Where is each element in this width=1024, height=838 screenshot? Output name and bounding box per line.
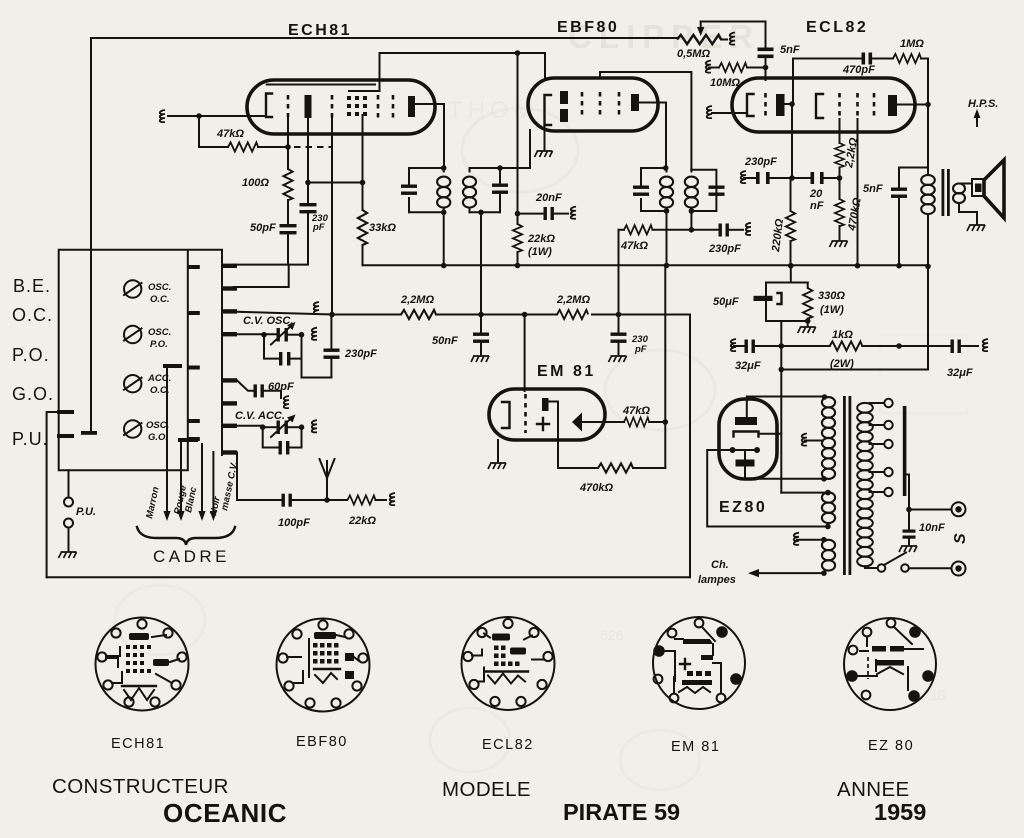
EBF80 grid columns xyxy=(581,92,584,119)
capacitor 50pF xyxy=(280,224,297,234)
svg-text:100pF: 100pF xyxy=(278,517,310,529)
wire top bus xyxy=(91,37,677,39)
svg-text:OSC.: OSC. xyxy=(146,420,169,431)
capacitor 50nF xyxy=(480,315,482,333)
ECL82 pentode grid columns xyxy=(838,93,841,119)
EBF80 cathode ground xyxy=(544,125,546,150)
svg-text:1MΩ: 1MΩ xyxy=(900,38,924,50)
svg-text:18: 18 xyxy=(930,687,946,703)
HT centre tap to chassis xyxy=(802,434,807,446)
svg-text:100Ω: 100Ω xyxy=(242,177,269,189)
EBF80 diode plate 2 xyxy=(560,109,568,122)
svg-text:1959: 1959 xyxy=(874,799,926,825)
resistor 330 Ohm (1W) xyxy=(807,283,809,289)
wire pentode screen to B+ xyxy=(857,119,859,266)
wire pentode anode out xyxy=(897,104,928,106)
svg-text:230pF: 230pF xyxy=(744,156,777,168)
svg-text:ANNEE: ANNEE xyxy=(837,778,910,801)
coil IFT3 primary xyxy=(660,177,673,208)
coil HT secondary winding xyxy=(822,394,828,400)
svg-text:PIRATE 59: PIRATE 59 xyxy=(563,799,680,825)
svg-text:ECH81: ECH81 xyxy=(111,736,165,752)
wire triode anode out xyxy=(785,103,793,105)
ECH81 grid g1 column xyxy=(287,95,290,118)
svg-text:OCEANIC: OCEANIC xyxy=(163,798,287,828)
svg-text:50pF: 50pF xyxy=(250,222,276,234)
resistor 22kOhm antenna xyxy=(348,495,376,504)
svg-text:ECH81: ECH81 xyxy=(288,22,352,39)
AVC line xyxy=(332,314,690,316)
OT core xyxy=(942,169,945,216)
tube EM81 envelope xyxy=(489,389,605,440)
ECL82 pentode grid cage xyxy=(816,94,823,118)
svg-text:G.O.: G.O. xyxy=(148,432,168,443)
resistor 47kOhm IF xyxy=(624,225,653,234)
svg-text:ECL82: ECL82 xyxy=(482,737,534,753)
svg-text:47kΩ: 47kΩ xyxy=(216,128,244,140)
socket EM81 xyxy=(653,617,745,709)
svg-text:nF: nF xyxy=(810,200,824,212)
capacitor padder under CV OSC xyxy=(264,335,278,359)
socket ECH81 xyxy=(96,618,189,711)
wire EM81 anode out xyxy=(582,421,624,423)
coil IFT1 secondary xyxy=(463,177,476,208)
svg-text:10nF: 10nF xyxy=(919,522,945,534)
capacitor IFT3 secondary tuning xyxy=(709,186,725,196)
wire EM81 cathode ground xyxy=(497,440,499,462)
svg-text:lampes: lampes xyxy=(698,574,736,586)
svg-text:P.U.: P.U. xyxy=(76,506,96,518)
capacitor 5nF coupling xyxy=(758,48,774,59)
svg-text:P.O.: P.O. xyxy=(12,345,50,365)
wire left vertical from top bus to band switch contact xyxy=(90,38,92,433)
EBF80 diode plate 1 xyxy=(560,91,568,104)
svg-text:32μF: 32μF xyxy=(947,367,973,379)
svg-text:S: S xyxy=(952,533,969,544)
svg-text:P.U.: P.U. xyxy=(12,429,49,449)
wire anode2 to HT bottom xyxy=(745,467,824,479)
wire P.U. jack link xyxy=(68,470,70,497)
svg-text:330Ω: 330Ω xyxy=(818,290,845,302)
capacitor 230pF detector xyxy=(719,224,729,237)
wire IFT1 primary bottom to bus xyxy=(443,212,445,265)
EBF80 anode bar xyxy=(631,94,639,111)
bottom bus xyxy=(47,576,690,578)
svg-text:EZ80: EZ80 xyxy=(719,499,767,516)
IFT3 primary left wire xyxy=(640,168,642,211)
svg-text:2,2MΩ: 2,2MΩ xyxy=(556,294,590,306)
svg-text:230pF: 230pF xyxy=(344,348,377,360)
svg-text:50μF: 50μF xyxy=(713,296,739,308)
EM81 target flag xyxy=(542,398,549,411)
svg-text:2,2MΩ: 2,2MΩ xyxy=(400,294,434,306)
mains terminal lower xyxy=(952,562,966,576)
svg-text:OSC.: OSC. xyxy=(148,282,171,293)
node screen 182 xyxy=(305,180,311,186)
svg-text:Ch.: Ch. xyxy=(711,559,729,571)
transformer core xyxy=(843,396,846,575)
resistor 2,2kOhm grid stopper xyxy=(839,119,841,143)
svg-text:EBF80: EBF80 xyxy=(296,734,348,750)
IFT3 primary wires xyxy=(641,168,667,211)
wire pentode anode vertical xyxy=(927,59,929,168)
ECL82 triode grid column xyxy=(764,93,767,119)
wire P.U. to bottom bus xyxy=(47,412,57,577)
svg-text:0,5MΩ: 0,5MΩ xyxy=(677,48,710,60)
wire B+ to 50uF node xyxy=(790,266,792,283)
wire cathode to 5V winding xyxy=(781,492,828,494)
svg-text:(1W): (1W) xyxy=(820,304,844,316)
svg-text:526: 526 xyxy=(600,627,624,643)
wire OT primary bottom down xyxy=(927,214,929,370)
svg-text:5nF: 5nF xyxy=(863,183,883,195)
wire EBF80 anode to IFT2 xyxy=(639,103,666,169)
svg-text:47kΩ: 47kΩ xyxy=(620,240,648,252)
capacitor 20nF xyxy=(518,213,544,215)
node 50nF xyxy=(478,312,484,318)
wire secondary to voice coil xyxy=(959,183,972,185)
svg-text:CONSTRUCTEUR: CONSTRUCTEUR xyxy=(52,775,229,798)
svg-text:MODELE: MODELE xyxy=(442,778,531,801)
socket EBF80 xyxy=(277,619,370,712)
wire pin2 to bus xyxy=(234,265,289,287)
svg-text:(1W): (1W) xyxy=(528,246,552,258)
ECH81 heptode grid dots xyxy=(347,96,367,116)
ECH81 triode grid column 2 xyxy=(392,95,395,118)
ECH81 dashed grid link xyxy=(294,146,332,148)
coil IFT1 primary xyxy=(437,177,450,208)
svg-text:230pF: 230pF xyxy=(708,243,741,255)
capacitor IFT1 secondary tuning xyxy=(499,168,501,183)
P.U. jack bottom xyxy=(64,519,73,528)
chassis hatch on grid wire xyxy=(160,110,165,122)
svg-text:G.O.: G.O. xyxy=(12,384,54,404)
wire triode cathode to chassis xyxy=(712,112,747,114)
EM81 grid column xyxy=(524,394,527,433)
svg-text:B.E.: B.E. xyxy=(13,276,51,296)
capacitor 32uF input filter xyxy=(731,339,736,351)
wire marron xyxy=(166,368,168,512)
capacitor 60pF xyxy=(237,380,253,390)
capacitor 230pF AVC xyxy=(618,315,620,333)
ECH81 cathode xyxy=(266,94,272,118)
B+ bus main xyxy=(363,264,928,266)
node IFT3 primary top (anode) xyxy=(663,165,669,171)
faint ghost print from page reverse xyxy=(115,18,968,790)
tube ECH81 envelope xyxy=(247,80,435,134)
wire EM81 grid xyxy=(524,315,526,392)
wire 50uF loop to 1k line xyxy=(780,321,782,493)
svg-text:EM 81: EM 81 xyxy=(537,363,596,380)
node 230pF EM81 xyxy=(616,312,622,318)
50uF/330R loop xyxy=(766,283,808,322)
svg-text:33kΩ: 33kΩ xyxy=(369,222,396,234)
svg-text:EBF80: EBF80 xyxy=(557,19,619,36)
wire blanc xyxy=(201,444,203,512)
EZ80 cathode bar xyxy=(734,432,759,437)
P.U. jack top xyxy=(64,498,73,507)
wire triode grid to osc line xyxy=(380,53,546,91)
switch wiper bar 2 xyxy=(178,438,198,442)
wire right bus vertical xyxy=(689,315,691,578)
trimmer C.V. OSC xyxy=(237,333,276,335)
node IFT3 primary bottom xyxy=(664,208,670,214)
IFT1 primary left wire xyxy=(408,168,410,212)
ECH81 internal grid tie wire xyxy=(349,90,380,92)
capacitor 470pF feedback xyxy=(793,58,861,60)
wire screen line xyxy=(781,369,927,371)
wire 47k left down to AVC line xyxy=(618,230,620,315)
node IFT1 primary bottom xyxy=(441,210,447,216)
switch contact bars inner edge xyxy=(188,265,200,441)
ECH81 screen bar electrode xyxy=(305,95,312,118)
wire to 50pF xyxy=(287,200,289,224)
P.U. switch contact bars xyxy=(57,410,74,414)
mains terminal upper xyxy=(952,502,966,516)
EZ80 filament xyxy=(732,449,759,451)
svg-text:ECL82: ECL82 xyxy=(806,19,868,36)
wire feedback down to triode anode xyxy=(792,59,794,105)
svg-text:(2W): (2W) xyxy=(830,358,854,370)
ECL82 pentode anode bar xyxy=(888,95,897,116)
tube EZ80 envelope xyxy=(719,399,777,479)
EM81 plus sign xyxy=(537,418,549,430)
ECH81 internal top wire xyxy=(267,84,375,86)
svg-text:C.V. OSC.: C.V. OSC. xyxy=(243,315,293,327)
capacitor IFT3 primary tuning xyxy=(633,186,649,196)
EZ80 anode 2 bar xyxy=(736,460,755,467)
wire wiper to 5nF xyxy=(701,22,766,48)
node IFT3 secondary bottom xyxy=(689,208,695,214)
svg-text:H.P.S.: H.P.S. xyxy=(968,98,998,110)
mains switch xyxy=(865,566,878,568)
wire noir masse xyxy=(212,452,214,512)
svg-text:470pF: 470pF xyxy=(842,64,875,76)
resistor 2,2MOhm AVC 1 xyxy=(401,310,436,319)
svg-text:pF: pF xyxy=(312,222,325,233)
ground speaker xyxy=(967,225,985,231)
resistor 100 Ohm cathode xyxy=(283,169,292,200)
wire screen to 33k xyxy=(308,182,363,184)
resistor 470kOhm EM81 xyxy=(558,402,598,469)
brace cadre xyxy=(137,527,235,545)
6,3V winding top to chassis xyxy=(794,533,799,545)
svg-text:5nF: 5nF xyxy=(780,44,800,56)
svg-text:22kΩ: 22kΩ xyxy=(348,515,376,527)
IFT1 primary top/bottom wires xyxy=(409,168,444,212)
node EM81 grid xyxy=(522,312,528,318)
coil 5V winding xyxy=(825,490,831,496)
svg-text:CADRE: CADRE xyxy=(153,547,230,566)
resistor 47kOhm grid xyxy=(199,116,228,147)
wire detector line down xyxy=(664,266,666,468)
svg-text:O.C.: O.C. xyxy=(150,294,170,305)
coil OT primary xyxy=(927,168,929,176)
node IFT1 secondary bottom xyxy=(478,210,484,216)
wire g3 column down to AVC line xyxy=(331,118,333,315)
ECL82 triode anode bar xyxy=(776,94,785,116)
capacitor 230pF tone xyxy=(756,172,770,184)
EM81 anode wedge xyxy=(572,413,582,432)
IFT3 secondary wires xyxy=(691,170,716,211)
coil 6,3V winding xyxy=(821,537,827,543)
node IFT1 primary top xyxy=(441,165,447,171)
capacitor padder under CV ACC xyxy=(263,427,278,447)
triode anode coupling line xyxy=(744,177,755,179)
svg-text:pF: pF xyxy=(634,344,647,355)
node cathode/147 junction xyxy=(285,144,291,150)
svg-text:C.V. ACC.: C.V. ACC. xyxy=(235,410,285,422)
speaker voice coil xyxy=(972,179,984,196)
svg-text:50nF: 50nF xyxy=(432,335,458,347)
wire ECH81 anode to osc transformer xyxy=(415,104,444,168)
svg-text:EZ 80: EZ 80 xyxy=(868,738,914,754)
socket ECL82 xyxy=(462,617,555,710)
resistor 1MOhm feedback xyxy=(893,54,921,63)
EZ80 anode 1 bar xyxy=(735,417,757,425)
resistor 22kOhm (1W) screen feed xyxy=(517,53,519,224)
node g-line / EBF80 AVC junction xyxy=(515,50,521,56)
resistor 10MOhm grid leak xyxy=(706,61,711,73)
resistor 220kOhm AF load xyxy=(790,178,792,211)
wire filament to 6,3V winding xyxy=(707,450,828,527)
capacitor 50uF electrolytic xyxy=(754,296,773,301)
svg-text:EM 81: EM 81 xyxy=(671,739,720,755)
capacitor IFT1 primary tuning xyxy=(401,185,417,195)
EM81 cathode xyxy=(502,402,510,428)
capacitor 100pF antenna xyxy=(282,494,292,507)
wire pin3 osc line xyxy=(237,312,332,315)
wire selector to mains terminal xyxy=(906,475,951,510)
coil IFT3 secondary xyxy=(685,177,698,208)
speaker cone xyxy=(984,160,1004,218)
node osc AVC junction xyxy=(329,312,335,318)
svg-text:THOM: THOM xyxy=(448,97,539,124)
svg-text:O.C.: O.C. xyxy=(12,305,53,325)
ECH81 anode bar xyxy=(408,96,415,117)
coil OT secondary xyxy=(953,184,965,204)
capacitor 20nF coupling xyxy=(811,172,824,184)
wire screen bar down xyxy=(307,118,309,203)
ground P.U. xyxy=(59,552,77,558)
wire rouge xyxy=(180,442,182,512)
svg-text:32μF: 32μF xyxy=(735,360,761,372)
potentiometer 0,5MOhm volume xyxy=(677,35,721,44)
wire secondary bottom down to AVC line xyxy=(480,212,482,314)
svg-text:22kΩ: 22kΩ xyxy=(527,233,555,245)
capacitor 230pF screen xyxy=(300,203,317,213)
svg-text:470kΩ: 470kΩ xyxy=(579,482,613,494)
voltage selector bar xyxy=(903,406,907,496)
coil mains primary xyxy=(857,403,873,566)
potentiometer wiper arrow xyxy=(700,22,702,29)
resistor 47kOhm EM81 xyxy=(624,417,649,426)
svg-text:60pF: 60pF xyxy=(268,381,294,393)
trimmer screw OSC O.C. xyxy=(124,280,142,297)
svg-text:1kΩ: 1kΩ xyxy=(832,329,853,341)
node 20nF junction xyxy=(515,211,521,217)
node antenna xyxy=(324,497,330,503)
resistor 1kOhm (2W) filter xyxy=(781,345,829,347)
socket EZ80 xyxy=(844,618,936,710)
trimmer screw OSC P.O. xyxy=(124,326,142,343)
ECL82 triode cathode xyxy=(747,94,754,116)
wire anode1 to HT top xyxy=(747,397,825,418)
wire triode anode down through 220k xyxy=(791,104,793,178)
resistor 33kOhm screen xyxy=(362,115,364,210)
ECH81 triode grid column xyxy=(377,95,380,118)
node IFT1 secondary cap top xyxy=(497,165,503,171)
node grid/47k junction xyxy=(196,113,202,119)
tube ECL82 envelope xyxy=(732,78,915,132)
wire detector load line xyxy=(653,211,719,230)
trimmer C.V. ACC xyxy=(237,425,263,427)
IFT1 secondary bottom wire xyxy=(470,211,501,213)
svg-text:P.O.: P.O. xyxy=(150,339,168,350)
switch contact pins right edge xyxy=(222,264,237,455)
wire grid input with chassis squiggle xyxy=(168,115,264,117)
svg-text:47kΩ: 47kΩ xyxy=(622,405,650,417)
capacitor 230pF osc xyxy=(330,315,332,349)
resistor 470kOhm grid leak xyxy=(835,199,844,226)
capacitor 10nF mains xyxy=(908,510,910,530)
svg-text:OSC.: OSC. xyxy=(148,327,171,338)
node grid junction xyxy=(763,65,769,71)
contact T-bar of left vertical xyxy=(81,431,97,435)
EBF80 cathode xyxy=(545,95,552,125)
trimmer screw OSC G.O. xyxy=(124,420,142,437)
primary tap wires and terminals xyxy=(870,402,885,404)
wire masse C.V. down xyxy=(237,453,281,501)
wire EBF80 diode to IFT2 secondary xyxy=(600,72,691,170)
wire IFT3 primary bottom to B+ bus xyxy=(666,211,668,266)
wire heater chain with arrow xyxy=(758,572,824,574)
IFT1 secondary top wire to EBF80 xyxy=(470,130,531,168)
switch wiper bar 1 xyxy=(163,364,182,368)
capacitor 32uF output filter xyxy=(899,345,950,347)
svg-text:20: 20 xyxy=(809,188,823,200)
ECH81 grid g3 column xyxy=(331,95,334,118)
band switch box outline xyxy=(59,250,222,470)
EBF80 grid stub from top xyxy=(544,53,546,80)
tube EBF80 envelope xyxy=(528,78,658,131)
antenna symbol xyxy=(320,459,335,500)
trimmer screw ACC O.C. xyxy=(124,375,142,392)
svg-text:10MΩ: 10MΩ xyxy=(710,77,740,89)
resistor 2,2MOhm AVC 2 xyxy=(557,310,588,319)
wire padder tap down xyxy=(302,359,332,378)
wire cathode out xyxy=(759,433,782,435)
wire cathode column down xyxy=(287,118,289,169)
capacitor 5nF across output xyxy=(899,168,928,188)
svg-text:20nF: 20nF xyxy=(535,192,562,204)
